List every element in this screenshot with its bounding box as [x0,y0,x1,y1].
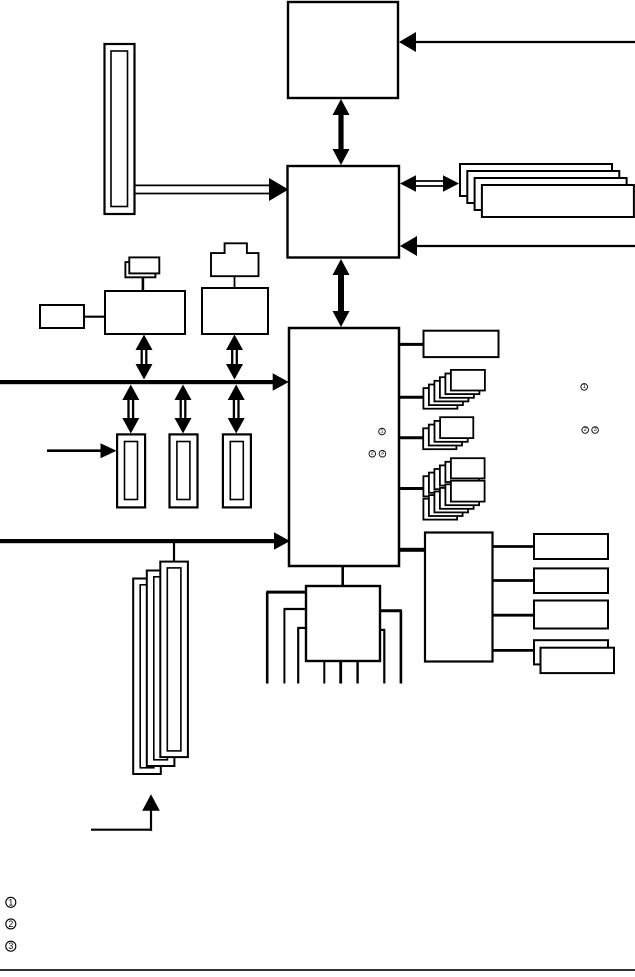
svg-text:3: 3 [381,451,384,457]
svg-text:2: 2 [8,919,13,929]
svg-text:2: 2 [584,427,587,433]
svg-text:1: 1 [583,384,586,390]
svg-text:2: 2 [371,451,374,457]
svg-text:3: 3 [8,941,13,951]
svg-text:1: 1 [8,897,13,907]
svg-text:1: 1 [380,429,383,435]
svg-text:3: 3 [593,427,596,433]
